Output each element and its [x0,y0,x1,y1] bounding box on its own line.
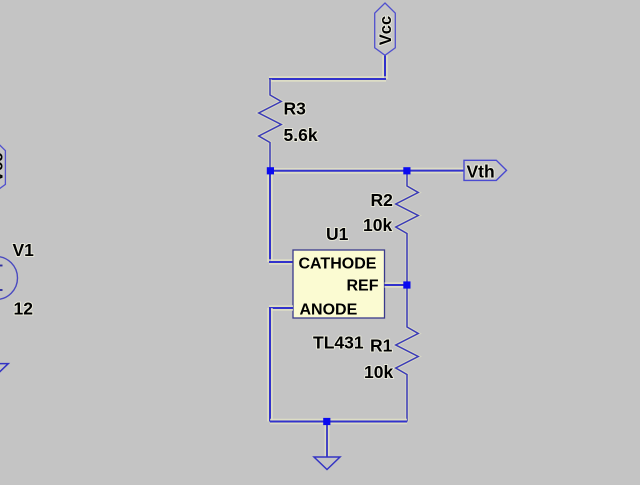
wire middle horizontal [270,168,407,174]
svg-text:5.6k: 5.6k [284,125,318,145]
junction node right (R3 wire / R2 / Vth) [403,167,410,174]
svg-text:Vcc: Vcc [0,153,7,182]
wire REF pin [385,282,408,288]
wire anode vertical [267,308,273,422]
svg-text:10k: 10k [363,215,392,235]
svg-text:U1: U1 [326,224,349,244]
voltage source V1 (clipped at left edge) [0,257,18,300]
svg-text:Vth: Vth [467,161,495,181]
junction node left (R3 / wire / cathode) [267,167,274,174]
ground (main) [314,424,340,470]
junction node ground [323,418,330,425]
wire from Vcc flag down [382,55,388,79]
svg-text:12: 12 [14,298,34,318]
svg-text:TL431: TL431 [313,332,364,352]
wire top horizontal to R3 [269,76,386,82]
flag Vth (output label) [464,160,507,181]
svg-text:R3: R3 [284,98,307,118]
wire bottom horizontal [270,419,407,425]
junction node REF (R2 / R1 / REF) [403,281,410,288]
op-amp U1 body (TL431 shunt regulator box) [293,250,385,319]
wire to Vth flag [407,168,465,174]
svg-text:10k: 10k [364,362,393,382]
svg-text:R2: R2 [371,190,394,210]
ground (left, clipped) [0,300,8,377]
wire cathode vertical [267,171,273,262]
flag Vcc (left, clipped) [0,141,7,192]
svg-text:CATHODE: CATHODE [299,256,377,273]
svg-text:ANODE: ANODE [300,302,358,319]
flag Vcc (top) [375,3,396,55]
svg-text:Vcc: Vcc [377,16,395,45]
svg-text:V1: V1 [13,240,35,260]
wire anode horizontal from U1 [269,305,293,311]
resistor R3 [259,79,282,171]
svg-text:REF: REF [347,278,379,295]
resistor R1 [396,285,419,422]
wire cathode horizontal to U1 [269,259,293,265]
resistor R2 [396,171,419,285]
svg-text:R1: R1 [370,336,393,356]
